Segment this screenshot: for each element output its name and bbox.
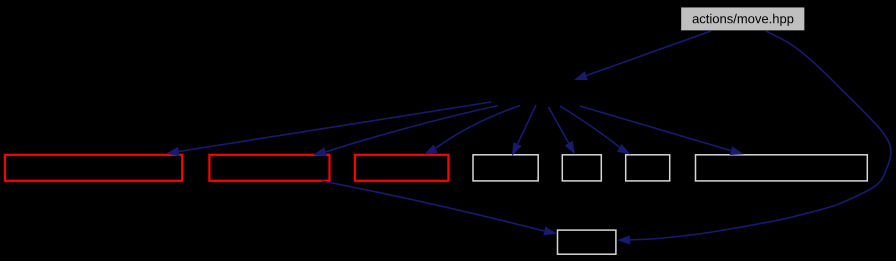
edge root to central (574, 31, 711, 80)
node G2 (grey bordered) (562, 155, 601, 181)
edge central to G3 (560, 106, 631, 155)
node G1 (grey bordered) (473, 155, 538, 181)
edge central to G2 (549, 107, 576, 155)
node R2 (red truncated, second) (209, 155, 329, 181)
edge root to B1 (long right curve) (617, 31, 891, 244)
node R3 (red truncated, third) (355, 155, 449, 181)
node actions/move.hpp (root, grey filled) (681, 7, 806, 31)
node central (invisible, black on black) (499, 79, 611, 103)
node R1 (red truncated, far left) (5, 155, 182, 181)
edge central to G4 (580, 106, 744, 155)
node B1 (grey bordered, bottom) (558, 230, 616, 254)
edge central to R2 (313, 106, 498, 157)
edge R2 to B1 (322, 181, 557, 235)
edge central to R1 (166, 102, 491, 156)
edge central to R3 (424, 106, 520, 155)
node G4 (grey bordered, wide) (696, 155, 868, 181)
edge central to G1 (512, 105, 536, 156)
node G3 (grey bordered) (626, 155, 670, 181)
